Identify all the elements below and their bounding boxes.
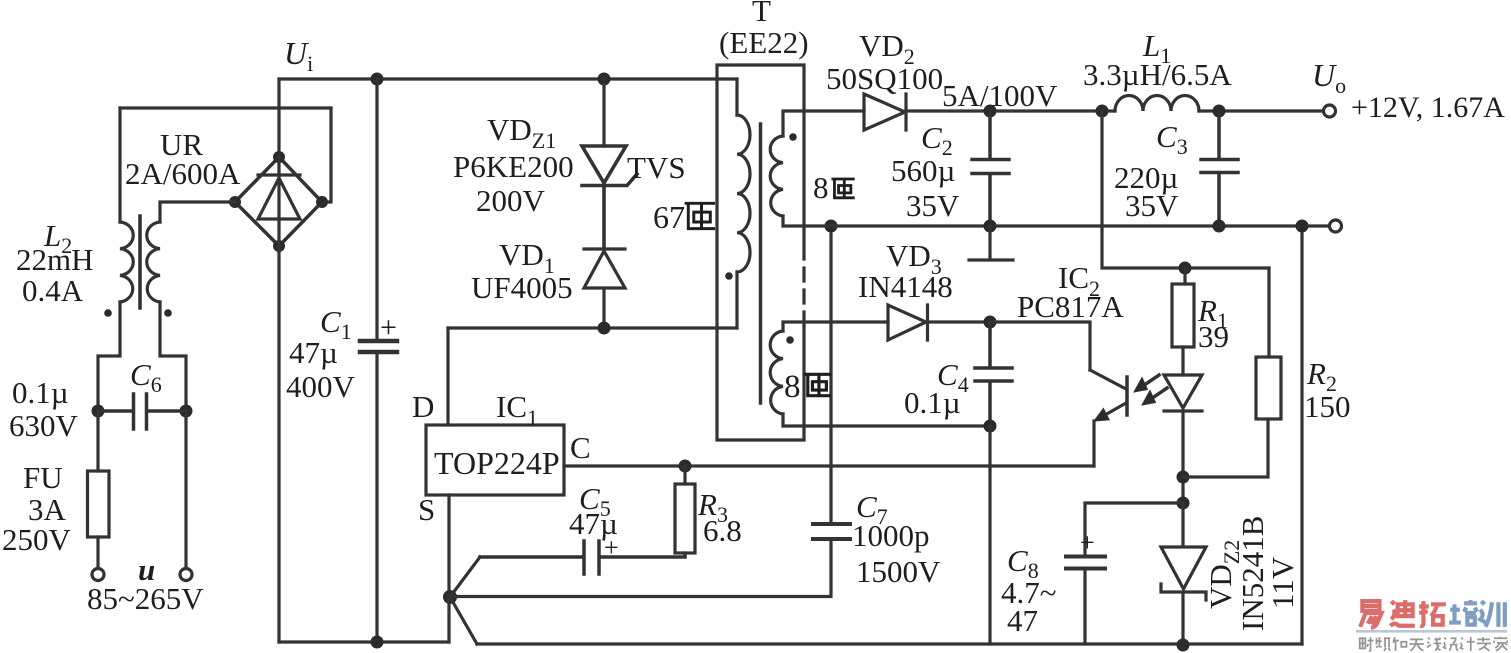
- capacitor C5 47u: [480, 541, 685, 574]
- wire: loop right down to bridge right vertex: [324, 108, 331, 202]
- watermark big char yi: [1360, 601, 1381, 628]
- common-mode choke L2 left winding: [120, 222, 133, 302]
- node C6 left: [92, 405, 105, 418]
- watermark big char pei: [1449, 600, 1477, 625]
- wire: S node down to ground rail: [447, 597, 450, 642]
- wire: VD3 cathode to C4 node: [928, 320, 990, 323]
- node C3 top: [1213, 105, 1226, 118]
- wire: bias winding bottom lead: [783, 414, 990, 426]
- node bridge top vertex: [273, 151, 285, 163]
- node at VDZ1 tap on top rail: [598, 73, 611, 86]
- wire: L2 left bottom lead to C6 node: [98, 302, 120, 411]
- watermark small char xian: [1427, 638, 1441, 651]
- node R1 top: [1179, 262, 1192, 275]
- svg-text:200V: 200V: [476, 183, 546, 218]
- transformer bias winding 8T bottom: [770, 331, 783, 414]
- svg-text:50SQ100: 50SQ100: [826, 61, 943, 96]
- optocoupler phototransistor base bar: [1125, 377, 1129, 415]
- wire: drain line from IC1 D to primary bottom: [448, 326, 737, 329]
- transformer secondary winding 8T top: [770, 136, 783, 216]
- svg-text:+: +: [1080, 528, 1095, 557]
- inductor L1 3.3uH: [1115, 96, 1199, 112]
- svg-text:85~265V: 85~265V: [87, 581, 204, 616]
- wire: top rail Ui from bridge to transformer: [279, 77, 737, 80]
- wire: secondary return right edge riser: [1300, 226, 1303, 644]
- capacitor C7 1000p plates: [813, 524, 850, 539]
- watermark big char xun: [1480, 601, 1505, 627]
- svg-text:560µ: 560µ: [891, 153, 955, 188]
- wire: C pin control line: [564, 464, 1094, 467]
- svg-text:630V: 630V: [9, 408, 79, 443]
- wire: S node diagonal to ground rail right part: [450, 597, 477, 644]
- bias winding phase dot: [786, 336, 794, 344]
- resistor R2 150: [1256, 357, 1281, 419]
- wire: secondary top lead to VD2: [783, 111, 864, 136]
- wire: primary winding bottom lead: [735, 272, 738, 328]
- wire: L2 right bottom lead to C6 node: [160, 302, 186, 411]
- capacitor C8 4.7-47u: [1066, 557, 1105, 569]
- wire: drop into transformer primary top: [735, 79, 738, 115]
- secondary phase dot: [789, 133, 797, 141]
- svg-text:22mH: 22mH: [16, 242, 94, 277]
- capacitor C1 top lead: [375, 79, 378, 341]
- light arrow 1: [1140, 375, 1159, 388]
- svg-text:0.1µ: 0.1µ: [12, 375, 69, 410]
- optocoupler phototransistor emitter: [1098, 403, 1126, 419]
- input terminal right: [180, 569, 192, 581]
- svg-text:FU: FU: [23, 460, 63, 495]
- L2 phase dot right: [164, 309, 172, 317]
- wire: LED cathode down: [1181, 411, 1184, 503]
- node bridge right vertex: [316, 196, 328, 208]
- svg-text:C: C: [570, 430, 591, 465]
- wire: bridge AC loop top: [120, 106, 331, 109]
- watermark small char jia: [1494, 637, 1507, 651]
- wire: emitter down to control line: [1092, 421, 1095, 466]
- label 67 turns zha: [686, 203, 714, 228]
- watermark small char he: [1393, 637, 1407, 651]
- svg-text:P6KE200: P6KE200: [453, 149, 574, 184]
- node bridge bottom vertex: [273, 240, 285, 252]
- emitter arrowhead: [1094, 408, 1109, 421]
- node C3 bottom on return rail: [1213, 220, 1226, 233]
- wire: L1 to +output terminal: [1199, 109, 1323, 112]
- output terminal plus: [1324, 105, 1336, 117]
- capacitor C2 560u: [972, 111, 1009, 226]
- svg-text:47µ: 47µ: [289, 335, 338, 370]
- watermark big char di: [1390, 600, 1415, 626]
- L2 core bar: [138, 216, 142, 308]
- wire: feedback tap riser down: [1102, 111, 1269, 268]
- diode VD1 UF4005: [584, 249, 625, 328]
- svg-text:IN4148: IN4148: [858, 269, 953, 304]
- svg-text:PC817A: PC817A: [1017, 289, 1124, 324]
- svg-text:(EE22): (EE22): [719, 25, 809, 60]
- output terminal minus: [1330, 220, 1342, 232]
- bridge inner diode symbol: [258, 157, 300, 246]
- transformer shield dashed edge: [802, 246, 805, 326]
- svg-text:35V: 35V: [906, 188, 960, 223]
- capacitor C1 bottom lead: [375, 352, 378, 642]
- wire: D pin riser: [446, 328, 449, 425]
- watermark small char zhuan: [1477, 637, 1491, 651]
- node R3 on control line: [679, 460, 692, 473]
- wire: bias winding top lead to VD3: [783, 322, 888, 331]
- watermark big char tuo: [1419, 601, 1446, 626]
- svg-text:+: +: [604, 533, 619, 562]
- node at C1 tap on top rail: [371, 73, 384, 86]
- node C2 bottom on return rail: [984, 220, 997, 233]
- diode VD3 1N4148: [888, 305, 928, 340]
- primary phase dot: [725, 272, 733, 280]
- node C4 bottom: [984, 420, 997, 433]
- svg-text:TOP224P: TOP224P: [434, 445, 560, 481]
- svg-text:11V: 11V: [1265, 556, 1300, 609]
- wire: bias return down to ground rail: [988, 426, 991, 644]
- wire: bridge left vertex to L2 right winding: [160, 202, 235, 222]
- svg-text:5A/100V: 5A/100V: [942, 78, 1058, 113]
- wire: C7 top lead to secondary return: [829, 226, 832, 524]
- wire: C8 bottom lead to ground rail: [1083, 569, 1086, 644]
- svg-text:67: 67: [653, 199, 685, 235]
- wire: S pin riser: [447, 495, 450, 597]
- node S source star point: [443, 590, 457, 604]
- svg-text:8: 8: [784, 369, 801, 405]
- node feedback tap on +rail: [1096, 105, 1109, 118]
- optocoupler LED: [1164, 375, 1202, 411]
- svg-text:400V: 400V: [286, 369, 356, 404]
- wire: loop left down to L2: [118, 108, 121, 222]
- wire: zener to ground rail: [1181, 592, 1184, 645]
- watermark small char she: [1360, 637, 1374, 651]
- svg-text:UF4005: UF4005: [471, 270, 573, 305]
- wire: primary ground rail left part: [279, 640, 449, 643]
- node C2 top: [984, 105, 997, 118]
- wire: secondary bottom lead to output return rail: [783, 216, 1329, 226]
- svg-text:35V: 35V: [1125, 188, 1179, 223]
- svg-text:S: S: [418, 492, 435, 527]
- label top secondary zha: [833, 179, 854, 198]
- node C7 on secondary return rail: [825, 220, 838, 233]
- TVS diode VDZ1 P6KE200: [582, 146, 626, 183]
- wire: R2 top lead: [1267, 268, 1270, 357]
- node C6 right: [180, 405, 193, 418]
- watermark small char ji: [1461, 637, 1475, 651]
- watermark small char she2: [1444, 638, 1458, 651]
- node C4 top / VD3 cathode: [984, 316, 997, 329]
- input terminal left: [92, 569, 104, 581]
- C2 ground stub: [969, 226, 1013, 260]
- svg-text:8: 8: [813, 170, 829, 205]
- svg-text:T: T: [752, 0, 771, 28]
- watermark underline: [1356, 630, 1507, 633]
- watermark small char pin: [1376, 637, 1390, 651]
- transformer core bar: [759, 124, 763, 403]
- svg-text:47: 47: [1007, 603, 1038, 638]
- L2 phase dot left: [104, 309, 112, 317]
- wire: C8 branch line: [1085, 503, 1183, 555]
- zener diode VDZ2 1N5241B: [1161, 503, 1206, 600]
- capacitor C1 plates: [360, 341, 397, 352]
- common-mode choke L2 right winding: [147, 222, 160, 302]
- svg-text:+12V, 1.67A: +12V, 1.67A: [1351, 91, 1505, 124]
- svg-text:1000p: 1000p: [852, 518, 930, 553]
- svg-text:6.8: 6.8: [703, 513, 742, 548]
- wire: R2 bottom lead to LED cathode node: [1183, 419, 1268, 477]
- svg-text:150: 150: [1304, 389, 1351, 424]
- svg-text:39: 39: [1198, 319, 1229, 354]
- transformer primary winding 67T: [737, 115, 750, 272]
- svg-text:0.4A: 0.4A: [22, 273, 84, 308]
- bridge rectifier UR diamond: [235, 157, 322, 246]
- resistor R3 6.8: [683, 466, 686, 557]
- node C1 on ground rail: [371, 636, 384, 649]
- svg-text:1500V: 1500V: [856, 554, 941, 589]
- wire: +12V rail from VD2 to L1: [906, 109, 1115, 112]
- svg-text:2A/600A: 2A/600A: [125, 156, 241, 191]
- svg-text:+: +: [380, 311, 397, 344]
- light arrow 2: [1148, 388, 1167, 401]
- capacitor C4 0.1u: [975, 322, 1012, 426]
- wire: Ui corner down to bridge top vertex: [277, 79, 280, 157]
- node LED cathode / R2 junction: [1177, 471, 1190, 484]
- node zener on ground rail: [1177, 639, 1190, 652]
- op IC1 TOP224P box: [426, 425, 564, 495]
- wire: S node diagonal to C5: [450, 557, 480, 597]
- node return rail right: [1296, 220, 1309, 233]
- wire: C7 bottom line from S node: [450, 541, 831, 597]
- svg-text:TVS: TVS: [627, 150, 686, 185]
- TVS diode VDZ1 lead: [602, 79, 605, 146]
- node VD1 on drain line: [598, 322, 611, 335]
- svg-text:250V: 250V: [2, 522, 72, 557]
- fuse FU body: [96, 411, 99, 568]
- svg-text:D: D: [412, 389, 434, 424]
- optocoupler IC2 phototransistor collector: [1090, 370, 1126, 389]
- resistor R1 39: [1183, 268, 1185, 375]
- capacitor C6: [98, 394, 186, 429]
- wire: to optocoupler collector: [990, 322, 1090, 370]
- wire: right input lead: [184, 411, 187, 568]
- node bridge left vertex: [229, 196, 241, 208]
- diode VD2 50SQ100: [864, 94, 906, 130]
- wire: ground rail right part: [477, 642, 1302, 645]
- svg-text:0.1µ: 0.1µ: [904, 385, 961, 420]
- label bias winding zha: [806, 374, 829, 395]
- svg-text:3.3µH/6.5A: 3.3µH/6.5A: [1083, 57, 1232, 92]
- transformer T EE22 box: [717, 65, 804, 440]
- watermark small char tian: [1410, 639, 1424, 650]
- node C8 / zener junction: [1177, 497, 1190, 510]
- capacitor C3 220u: [1201, 111, 1238, 226]
- wire: bridge bottom vertical to ground rail: [277, 246, 280, 642]
